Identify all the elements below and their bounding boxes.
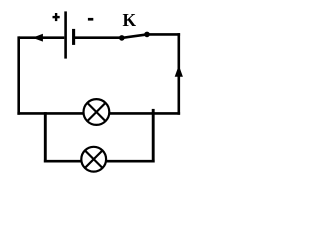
wire battery to switch bbox=[74, 36, 122, 39]
middle horizontal wire (lamp L1 branch) bbox=[17, 112, 180, 115]
lamp L2 (circle with X) bbox=[81, 147, 106, 172]
bottom horizontal wire (lamp L2 branch) bbox=[44, 160, 155, 163]
left vertical wire bbox=[17, 36, 20, 114]
battery polarity label + bbox=[53, 13, 60, 21]
battery polarity label - bbox=[88, 18, 93, 21]
battery positive plate (long) bbox=[64, 11, 67, 58]
svg-text:K: K bbox=[122, 10, 136, 30]
battery negative plate (short) bbox=[72, 29, 75, 45]
left branch junction vertical wire bbox=[44, 112, 47, 162]
current direction arrow pointing left bbox=[32, 34, 43, 42]
lamp L1 (circle with X) bbox=[84, 99, 110, 125]
switch K blade bbox=[122, 34, 147, 38]
switch K left contact dot bbox=[119, 35, 125, 41]
right vertical wire bbox=[178, 33, 181, 115]
right branch junction vertical wire (with stub above) bbox=[152, 109, 155, 163]
wire switch to top-right corner bbox=[147, 33, 180, 36]
switch K right contact dot bbox=[144, 32, 150, 38]
wire top-left segment bbox=[19, 36, 65, 39]
current direction arrow pointing up bbox=[175, 65, 183, 77]
